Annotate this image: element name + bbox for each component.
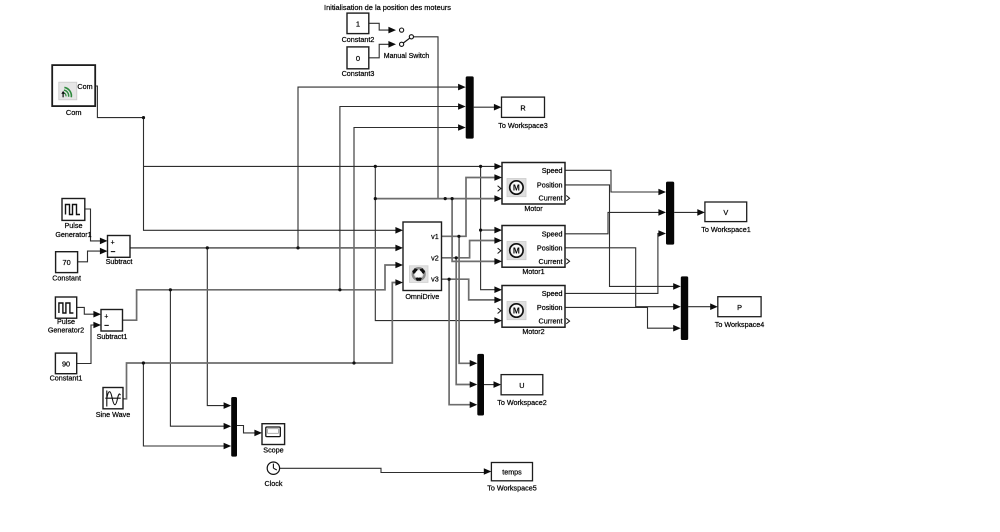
svg-text:Constant2: Constant2 <box>342 35 375 44</box>
svg-text:+: + <box>104 313 108 320</box>
svg-text:v2: v2 <box>431 253 439 262</box>
svg-text:To Workspace1: To Workspace1 <box>701 225 750 234</box>
svg-text:90: 90 <box>62 360 70 369</box>
svg-text:+: + <box>111 240 115 247</box>
svg-text:Current: Current <box>539 257 563 266</box>
svg-text:70: 70 <box>63 258 71 267</box>
svg-text:Sine Wave: Sine Wave <box>96 410 131 419</box>
svg-text:Com: Com <box>77 82 92 91</box>
svg-text:v1: v1 <box>431 232 439 241</box>
svg-text:Initialisation de la position: Initialisation de la position des moteur… <box>324 3 451 12</box>
svg-text:Manual Switch: Manual Switch <box>384 53 430 60</box>
svg-text:Generator1: Generator1 <box>55 230 91 239</box>
svg-text:Position: Position <box>537 180 563 189</box>
svg-text:Current: Current <box>539 194 563 203</box>
svg-text:To Workspace3: To Workspace3 <box>498 121 547 130</box>
svg-text:v3: v3 <box>431 275 439 284</box>
svg-text:To Workspace5: To Workspace5 <box>487 484 536 493</box>
svg-text:1: 1 <box>356 19 360 28</box>
svg-text:temps: temps <box>502 468 522 477</box>
svg-text:Position: Position <box>537 243 563 252</box>
svg-text:M: M <box>513 183 520 193</box>
svg-text:M: M <box>513 246 520 256</box>
svg-text:Clock: Clock <box>265 479 283 488</box>
svg-text:Generator2: Generator2 <box>48 325 84 334</box>
svg-text:Motor2: Motor2 <box>522 327 544 336</box>
svg-text:Speed: Speed <box>542 229 563 238</box>
svg-text:Constant1: Constant1 <box>50 374 83 383</box>
svg-text:OmniDrive: OmniDrive <box>405 292 439 301</box>
svg-text:To Workspace2: To Workspace2 <box>497 398 546 407</box>
svg-text:M: M <box>513 306 520 316</box>
svg-text:Scope: Scope <box>263 446 283 455</box>
svg-text:V: V <box>723 208 728 217</box>
svg-text:Motor: Motor <box>524 204 543 213</box>
svg-text:0: 0 <box>356 54 360 63</box>
svg-text:Subtract1: Subtract1 <box>97 332 128 341</box>
svg-text:U: U <box>519 381 524 390</box>
svg-text:Motor1: Motor1 <box>522 267 544 276</box>
svg-text:Subtract: Subtract <box>106 257 133 266</box>
svg-text:Constant3: Constant3 <box>342 69 375 78</box>
svg-text:Position: Position <box>537 303 563 312</box>
svg-text:Speed: Speed <box>542 166 563 175</box>
svg-text:Constant: Constant <box>52 274 81 283</box>
svg-text:R: R <box>520 103 525 112</box>
svg-text:To Workspace4: To Workspace4 <box>715 320 764 329</box>
svg-text:Com: Com <box>66 108 82 117</box>
svg-text:Speed: Speed <box>542 289 563 298</box>
svg-text:Current: Current <box>539 317 563 326</box>
svg-text:P: P <box>737 303 742 312</box>
